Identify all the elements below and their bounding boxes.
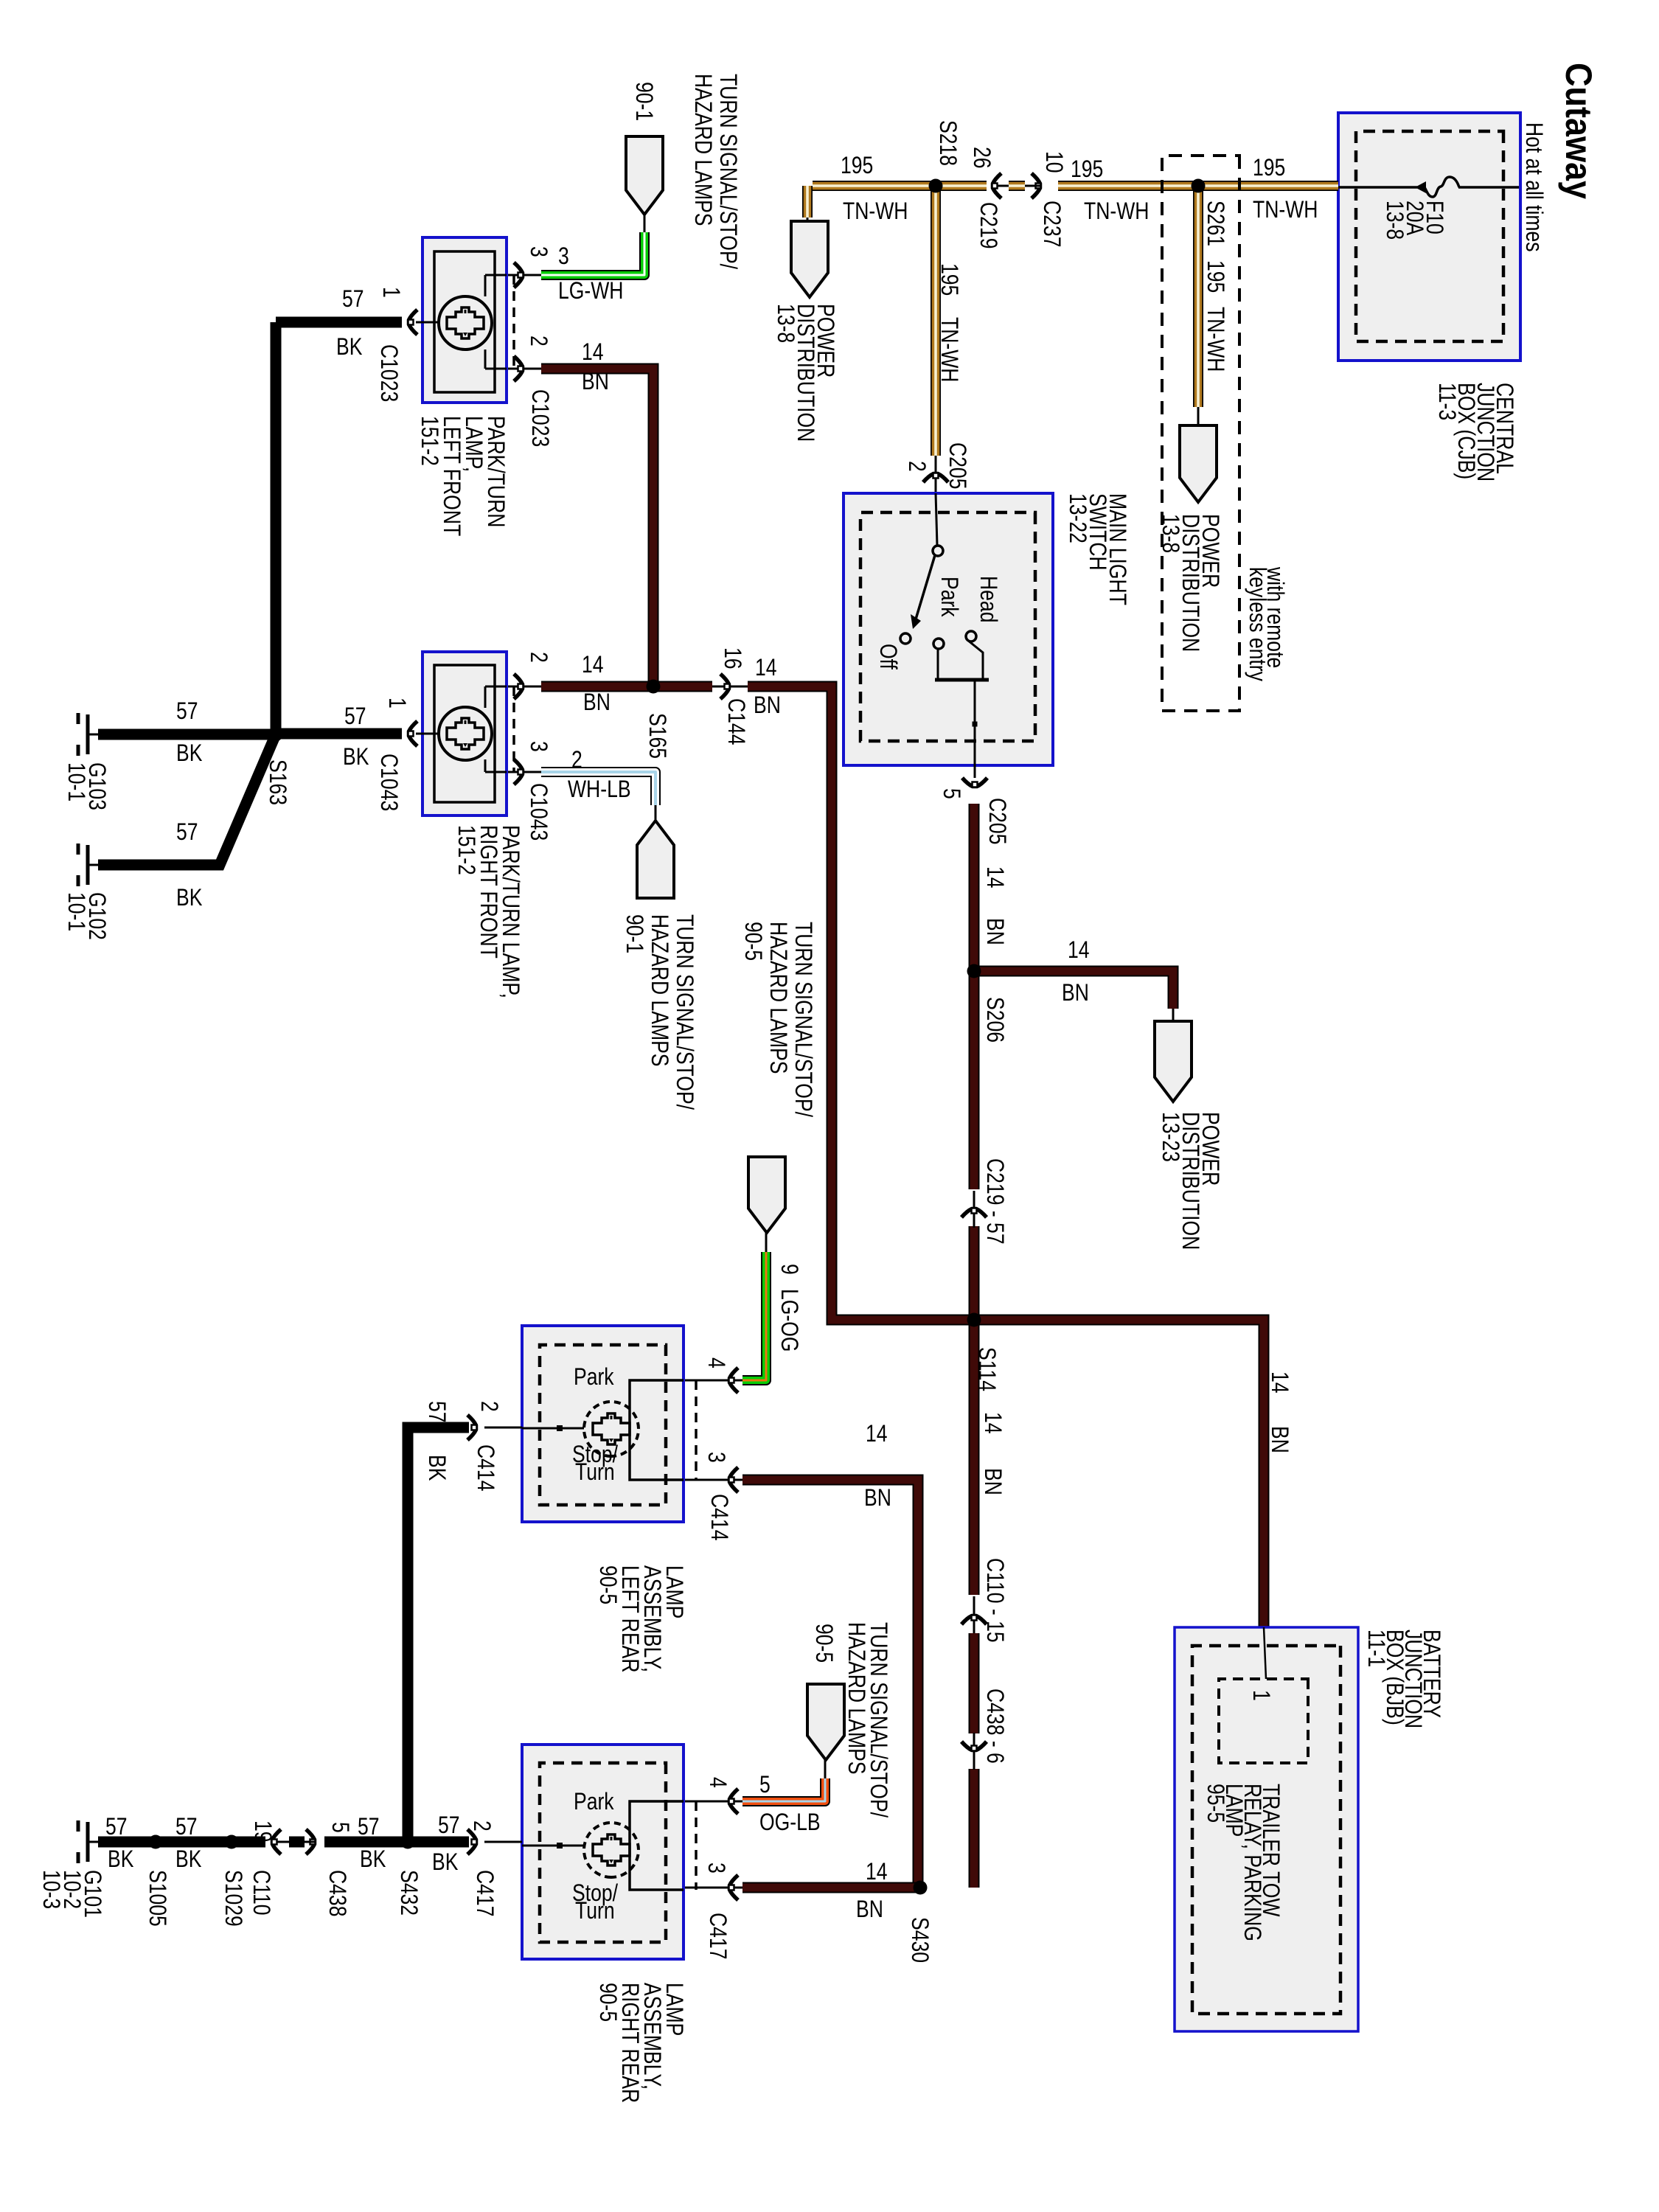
label C417 (pin 3) xyxy=(704,1913,731,1959)
left rear lamp assembly box xyxy=(522,1326,684,1522)
title Cutaway xyxy=(1557,63,1599,200)
svg-text:Turn: Turn xyxy=(575,1898,615,1924)
label C237 xyxy=(1038,201,1065,247)
label C205 xyxy=(944,442,970,489)
junction square on output wire xyxy=(973,722,978,727)
wire label 57 (G102) xyxy=(176,819,198,846)
svg-text:13-22: 13-22 xyxy=(1064,493,1091,543)
battery junction box BJB xyxy=(1175,1627,1358,2031)
right rear lamp inner dashed outline xyxy=(540,1763,666,1942)
wire label OG-LB xyxy=(759,1809,821,1836)
switch Park terminal xyxy=(933,639,944,649)
label Hot at all times xyxy=(1520,122,1547,252)
svg-text:C205: C205 xyxy=(944,442,970,489)
right front lamp pin 1 wire xyxy=(416,733,439,735)
svg-text:2: 2 xyxy=(571,747,582,773)
svg-text:14: 14 xyxy=(582,652,604,678)
svg-text:Head: Head xyxy=(975,576,1001,622)
wire label BK (S432 to C417) xyxy=(432,1849,459,1876)
svg-text:14: 14 xyxy=(979,1412,1006,1434)
label BATTERY JUNCTION BOX (BJB) 11-1 xyxy=(1418,1630,1444,1718)
wire 3 LG-WH to left front pin 3 xyxy=(644,215,646,234)
wire 57 BK left front to S163 xyxy=(276,317,402,328)
dashed connector line C1043 xyxy=(512,686,515,772)
svg-text:14: 14 xyxy=(1068,937,1090,964)
connector C205 arrow at switch pin 5 xyxy=(962,778,987,787)
turn signal reference arrow 90-1 (right front WH-LB) xyxy=(637,821,674,898)
svg-text:C205: C205 xyxy=(984,798,1010,844)
switch output wire to pin 5 xyxy=(974,680,976,778)
svg-text:BN: BN xyxy=(754,692,781,719)
ground G103 xyxy=(88,734,98,736)
main light switch inner dashed outline xyxy=(860,512,1035,741)
wire label BN (detour horizontal) xyxy=(754,692,781,719)
svg-text:BK: BK xyxy=(175,1846,202,1873)
svg-text:90-5: 90-5 xyxy=(740,922,766,961)
connector C438 arrow (ground chain) xyxy=(306,1829,316,1854)
label with remote keyless entry xyxy=(1262,566,1288,668)
svg-text:S206: S206 xyxy=(981,997,1008,1043)
S261 branch wire 195 TN-WH to power distribution xyxy=(1193,186,1203,407)
pin label 2 (left rear) xyxy=(476,1401,502,1412)
svg-text:90-1: 90-1 xyxy=(621,914,647,953)
svg-text:BN: BN xyxy=(1062,980,1089,1006)
wire label BK (G103) xyxy=(176,740,203,767)
svg-text:13-8: 13-8 xyxy=(772,304,799,343)
connector C110 arrow (ground chain) xyxy=(272,1829,282,1854)
wire label BN (right rear pin3) xyxy=(856,1896,883,1923)
dashed connector line C414 xyxy=(695,1380,698,1480)
svg-text:4: 4 xyxy=(704,1777,731,1788)
wire 5 OG-LB to right rear pin 4 xyxy=(824,1760,827,1781)
svg-text:2: 2 xyxy=(476,1401,502,1412)
left rear pin 2 wire xyxy=(484,1427,522,1429)
svg-text:57: 57 xyxy=(105,1814,128,1840)
wire label TN-WH (bus middle segment) xyxy=(1084,198,1149,225)
switch internal bus bar xyxy=(935,678,989,682)
label C219 xyxy=(975,202,1001,248)
svg-text:13-23: 13-23 xyxy=(1157,1112,1183,1162)
wire label 14 (bus after S114) xyxy=(979,1412,1006,1434)
wire label BK (G102) xyxy=(176,885,203,911)
label TURN SIGNAL/STOP/ HAZARD LAMPS 90-1 (right front) xyxy=(671,914,698,1110)
label C417 (pin 2) xyxy=(471,1870,498,1916)
label C110 xyxy=(248,1870,274,1916)
svg-text:S218: S218 xyxy=(934,120,961,166)
wire label 14 (right front pin2) xyxy=(582,652,604,678)
connector C414 arrow at left rear pin 4 xyxy=(729,1368,739,1393)
svg-text:151-2: 151-2 xyxy=(416,416,442,466)
svg-text:195: 195 xyxy=(936,263,962,296)
svg-text:5: 5 xyxy=(938,788,964,799)
right front bulb xyxy=(439,707,492,760)
svg-text:C1043: C1043 xyxy=(525,783,552,841)
power distribution reference arrow 13-23 xyxy=(1155,1021,1192,1102)
wire label 57 (G103) xyxy=(176,698,198,725)
svg-text:10: 10 xyxy=(1040,151,1067,173)
label C205 (output) xyxy=(984,798,1010,844)
wire 195 TN-WH from S218 to main light switch xyxy=(931,186,941,456)
wire label 195 (bus middle segment) xyxy=(1071,156,1103,183)
svg-text:195: 195 xyxy=(841,153,873,179)
wire Head terminal to bus bar xyxy=(967,640,983,680)
junction square inside right rear lamp xyxy=(557,1843,563,1848)
dashed connector line C417 xyxy=(695,1801,698,1890)
label Park (right rear) xyxy=(574,1789,614,1815)
turn signal reference arrow 90-1 (left front) xyxy=(626,136,663,215)
svg-text:S165: S165 xyxy=(644,713,670,759)
wire label 14 (S206 branch) xyxy=(1068,937,1090,964)
pin label 3 (right rear) xyxy=(703,1863,729,1874)
svg-text:HAZARD LAMPS: HAZARD LAMPS xyxy=(646,914,672,1067)
svg-text:10-1: 10-1 xyxy=(63,892,89,931)
pin label 3 (left rear) xyxy=(703,1452,729,1463)
label TURN SIGNAL/STOP/ HAZARD LAMPS (left front) xyxy=(714,74,741,270)
svg-text:1: 1 xyxy=(383,698,410,709)
S206 branch wire up and right xyxy=(974,971,1173,1009)
svg-text:BN: BN xyxy=(981,918,1008,945)
wire label BK (right front ground) xyxy=(343,744,369,771)
svg-text:C438: C438 xyxy=(324,1870,350,1916)
wire label LG-OG xyxy=(776,1289,802,1352)
label C414 (pin 2) xyxy=(472,1444,498,1491)
wire 57 BK right rear pin 2 to S432 xyxy=(408,1837,469,1848)
svg-text:90-5: 90-5 xyxy=(810,1624,837,1663)
wire into relay pin 1 xyxy=(1264,1627,1266,1679)
svg-text:14: 14 xyxy=(866,1421,888,1447)
label 10 xyxy=(1040,151,1067,173)
svg-text:14: 14 xyxy=(1266,1371,1293,1394)
left front park/turn lamp box xyxy=(422,237,507,403)
wire 9 LG-OG to left rear pin 4 xyxy=(765,1233,768,1254)
switch Head terminal xyxy=(966,631,976,641)
junction square inside left rear lamp xyxy=(557,1425,563,1431)
wire label 14 (left rear pin3) xyxy=(866,1421,888,1447)
svg-text:HAZARD LAMPS: HAZARD LAMPS xyxy=(689,74,716,226)
svg-text:LG-OG: LG-OG xyxy=(776,1289,802,1352)
label Stop/Turn (right rear) xyxy=(572,1880,619,1907)
svg-text:HAZARD LAMPS: HAZARD LAMPS xyxy=(843,1622,869,1775)
wire label BK (left rear ground) xyxy=(423,1455,450,1481)
svg-text:TURN SIGNAL/STOP/: TURN SIGNAL/STOP/ xyxy=(714,74,741,270)
wire 57 BK right front to S163 xyxy=(276,728,402,740)
svg-text:BN: BN xyxy=(1266,1426,1293,1453)
circuit label 3 (LG-WH) xyxy=(558,243,569,270)
wire label TN-WH (switch feed) xyxy=(936,317,962,382)
svg-text:57: 57 xyxy=(176,819,198,846)
label TURN SIGNAL/STOP/ HAZARD LAMPS 90-5 (right rear) xyxy=(865,1622,891,1818)
pin label 2 xyxy=(903,461,930,472)
connector C1023 arrow at left front pin 2 xyxy=(514,356,524,381)
wire 57 BK S1029 to S1005 xyxy=(156,1837,232,1848)
svg-text:3: 3 xyxy=(703,1863,729,1874)
label C1043 (pin 3) xyxy=(525,783,552,841)
svg-text:57: 57 xyxy=(438,1812,460,1839)
svg-text:TN-WH: TN-WH xyxy=(1202,307,1228,372)
svg-text:S261: S261 xyxy=(1202,201,1228,246)
svg-text:151-2: 151-2 xyxy=(453,825,479,875)
svg-text:BN: BN xyxy=(582,369,609,395)
wire label TN-WH (bus upper segment) xyxy=(1253,197,1318,223)
svg-text:BN: BN xyxy=(979,1468,1006,1495)
label S218 xyxy=(934,120,961,166)
svg-text:195: 195 xyxy=(1202,260,1228,293)
wire 195 TN-WH S261 to C237 xyxy=(1058,181,1198,191)
svg-text:BK: BK xyxy=(336,334,363,361)
switch Off terminal xyxy=(900,633,911,644)
connector C438-6 inline xyxy=(973,1733,975,1770)
svg-text:BK: BK xyxy=(360,1846,386,1873)
label C219 - 57 xyxy=(981,1158,1008,1245)
circuit label 5 (OG-LB) xyxy=(759,1772,771,1798)
central junction box CJB xyxy=(1338,113,1520,361)
pin label 4 (left rear) xyxy=(703,1357,729,1368)
label S165 xyxy=(644,713,670,759)
svg-text:BN: BN xyxy=(583,689,611,716)
svg-text:OG-LB: OG-LB xyxy=(759,1809,821,1836)
left rear lamp internal wiring xyxy=(630,1380,684,1480)
svg-text:1: 1 xyxy=(1248,1690,1274,1701)
label TURN SIGNAL/STOP/ HAZARD LAMPS 90-5 (left rear) xyxy=(790,922,816,1118)
svg-text:1: 1 xyxy=(378,287,404,298)
label MAIN LIGHT SWITCH 13-22 xyxy=(1104,493,1130,605)
pin label 16 xyxy=(719,647,745,669)
wire label 195 (bus upper segment) xyxy=(1253,155,1285,181)
label C1023 (pin 2) xyxy=(526,389,553,447)
svg-text:Off: Off xyxy=(874,644,901,670)
wire label 14 (bus after switch) xyxy=(981,866,1008,888)
svg-text:C414: C414 xyxy=(706,1494,732,1540)
right front lamp inner rect xyxy=(434,665,495,802)
wire label 14 (right rear pin3) xyxy=(866,1859,888,1885)
svg-text:57: 57 xyxy=(344,703,366,730)
CJB inner dashed outline xyxy=(1356,131,1503,341)
wire 14 BN S165 to right front lamp pin 2 xyxy=(541,681,653,692)
svg-text:3: 3 xyxy=(525,741,552,752)
label LAMP ASSEMBLY RIGHT REAR 90-5 xyxy=(661,1983,687,2036)
wire label BK (S1029-S1005) xyxy=(175,1846,202,1873)
label TRAILER TOW RELAY PARKING LAMP 95-5 xyxy=(1257,1784,1284,1917)
connector C417 arrow at right rear pin 3 xyxy=(729,1875,739,1900)
svg-text:Turn: Turn xyxy=(575,1459,615,1486)
label S206 xyxy=(981,997,1008,1043)
label Head xyxy=(975,576,1001,622)
pin label 3 (right front) xyxy=(525,741,552,752)
label PARK/TURN LAMP LEFT FRONT 151-2 xyxy=(482,416,509,527)
svg-text:3: 3 xyxy=(703,1452,729,1463)
wire label LG-WH xyxy=(558,278,623,305)
label G101 10-2 10-3 xyxy=(79,1870,105,1918)
svg-text:10-1: 10-1 xyxy=(63,762,89,801)
wire Park terminal to bus bar xyxy=(937,649,939,680)
svg-text:2: 2 xyxy=(525,335,552,347)
pin label 2 (left front) xyxy=(525,335,552,347)
connector C219 arrow xyxy=(992,173,1002,198)
pin label 2 (right rear) xyxy=(468,1820,495,1832)
svg-text:BK: BK xyxy=(176,740,203,767)
svg-text:Park: Park xyxy=(574,1789,614,1815)
svg-text:14: 14 xyxy=(582,339,604,366)
wire 195 TN-WH C219 to S218 xyxy=(936,181,987,191)
wire 57 BK left rear pin 2 to S432 xyxy=(408,1427,469,1842)
wire elbow to power distribution arrow xyxy=(802,186,813,218)
wire label 14 (left front pin2) xyxy=(582,339,604,366)
label S430 xyxy=(906,1917,933,1963)
wire label 57 (S432-C438) xyxy=(358,1814,380,1840)
svg-text:HAZARD LAMPS: HAZARD LAMPS xyxy=(765,922,791,1074)
label C438 xyxy=(324,1870,350,1916)
wire 14 BN S165 to left front lamp pin 2 xyxy=(541,369,653,686)
svg-text:C1023: C1023 xyxy=(375,344,402,402)
connector C1043 arrow at right front pin 3 xyxy=(514,759,524,785)
label Park (left rear) xyxy=(574,1364,614,1391)
wire label 195 (switch feed) xyxy=(936,263,962,296)
label Park xyxy=(936,577,962,617)
svg-text:S430: S430 xyxy=(906,1917,933,1963)
svg-text:C219: C219 xyxy=(975,202,1001,248)
connector C1023 arrow at left front pin 1 xyxy=(408,310,418,335)
wire label BN (left rear pin3) xyxy=(864,1485,891,1512)
svg-text:Hot at all times: Hot at all times xyxy=(1520,122,1547,252)
left front lamp pin 1 wire xyxy=(416,321,439,324)
wire 57 BK S1005 to G101 xyxy=(98,1837,156,1848)
wire label BN (BJB feed) xyxy=(1266,1426,1293,1453)
connector C1043 arrow at right front pin 2 xyxy=(514,674,524,699)
svg-text:95-5: 95-5 xyxy=(1202,1784,1228,1823)
svg-text:S1029: S1029 xyxy=(220,1870,246,1927)
pin label 4 (right rear) xyxy=(704,1777,731,1788)
svg-text:C237: C237 xyxy=(1038,201,1065,247)
svg-text:S432: S432 xyxy=(395,1870,422,1916)
svg-text:C438 - 6: C438 - 6 xyxy=(981,1688,1008,1764)
connector C110-15 inline xyxy=(973,1596,975,1633)
turn signal reference arrow 90-5 (left rear LG-OG) xyxy=(748,1157,785,1233)
svg-text:9: 9 xyxy=(776,1264,802,1275)
dashed connector line C1023 xyxy=(512,275,515,369)
svg-text:TURN SIGNAL/STOP/: TURN SIGNAL/STOP/ xyxy=(790,922,816,1118)
wire label BK (S432-C438) xyxy=(360,1846,386,1873)
svg-text:C1043: C1043 xyxy=(375,754,402,811)
svg-text:BK: BK xyxy=(108,1846,134,1873)
circuit label 2 (WH-LB) xyxy=(571,747,582,773)
S114 branch wire to battery junction box xyxy=(974,1320,1264,1627)
svg-text:keyless entry: keyless entry xyxy=(1244,567,1270,681)
pin label 1 (left front) xyxy=(378,287,404,298)
svg-text:BN: BN xyxy=(856,1896,883,1923)
svg-text:S114: S114 xyxy=(973,1347,1000,1391)
wire label TN-WH (S261 branch) xyxy=(1202,307,1228,372)
svg-text:195: 195 xyxy=(1071,156,1103,183)
svg-text:14: 14 xyxy=(866,1859,888,1885)
svg-text:3: 3 xyxy=(525,246,552,257)
label C144 xyxy=(723,698,749,745)
svg-text:11-1: 11-1 xyxy=(1363,1630,1389,1667)
svg-text:2: 2 xyxy=(468,1820,495,1832)
label C414 (pin 3) xyxy=(706,1494,732,1540)
svg-text:Park: Park xyxy=(936,577,962,617)
ground G102 xyxy=(88,864,98,866)
connector C219-57 inline xyxy=(973,1191,975,1228)
label S432 xyxy=(395,1870,422,1916)
switch blade to Off xyxy=(915,555,935,622)
left front lamp internal pin lines xyxy=(485,274,507,276)
wire label BN (bus after switch) xyxy=(981,918,1008,945)
label S163 xyxy=(264,759,291,805)
svg-text:WH-LB: WH-LB xyxy=(568,776,631,803)
wire 195 TN-WH from CJB down to S261 xyxy=(1198,181,1338,191)
right rear bulb xyxy=(584,1823,639,1877)
svg-text:90-5: 90-5 xyxy=(594,1983,621,2022)
label POWER DISTRIBUTION 13-8 (S261 branch) xyxy=(1197,514,1223,588)
svg-text:LG-WH: LG-WH xyxy=(558,278,623,305)
svg-text:TN-WH: TN-WH xyxy=(936,317,962,382)
svg-text:57: 57 xyxy=(176,698,198,725)
wire label TN-WH (bus lower segment) xyxy=(843,198,908,225)
wire 57 BK across to S163 xyxy=(271,322,282,734)
label S1005 xyxy=(144,1870,170,1927)
svg-text:TN-WH: TN-WH xyxy=(1253,197,1318,223)
ground G101 xyxy=(88,1841,98,1843)
dashed box with remote keyless entry xyxy=(1162,156,1239,711)
svg-text:90-1: 90-1 xyxy=(630,82,657,121)
wire label 195 (bus lower segment) xyxy=(841,153,873,179)
wire label BN (left front pin2) xyxy=(582,369,609,395)
connector C144 arrow xyxy=(720,674,730,699)
svg-text:3: 3 xyxy=(558,243,569,270)
svg-text:C1023: C1023 xyxy=(526,389,553,447)
right front lamp internal pin lines xyxy=(485,686,507,688)
pin label 5 (C438) xyxy=(327,1822,353,1833)
svg-text:Park: Park xyxy=(574,1364,614,1391)
wire label WH-LB xyxy=(568,776,631,803)
wire 57 BK S163 to G103 xyxy=(98,729,276,740)
svg-text:C219 - 57: C219 - 57 xyxy=(981,1158,1008,1245)
svg-text:57: 57 xyxy=(175,1814,198,1840)
trailer tow relay contact dashed box xyxy=(1219,1679,1308,1763)
connector C417 arrow at right rear pin 2 xyxy=(467,1829,477,1854)
wire label 14 (BJB feed) xyxy=(1266,1371,1293,1394)
pin label 2 (right front) xyxy=(525,652,552,663)
label S261 xyxy=(1202,201,1228,246)
wire 14 BN S430 to right rear pin 3 xyxy=(742,1882,920,1893)
wire label BK (left front ground) xyxy=(336,334,363,361)
BJB inner dashed outline xyxy=(1192,1646,1340,2014)
svg-text:S163: S163 xyxy=(264,759,291,805)
label S1029 xyxy=(220,1870,246,1927)
svg-text:90-5: 90-5 xyxy=(594,1565,621,1604)
S114 branch wire down and left to S165 (detour) xyxy=(748,686,974,1320)
left rear lamp inner dashed outline xyxy=(540,1345,666,1505)
svg-text:BK: BK xyxy=(423,1455,450,1481)
svg-text:57: 57 xyxy=(342,286,364,313)
pin label 1 (right front) xyxy=(383,698,410,709)
label G103 10-1 xyxy=(83,762,110,810)
connector C417 arrow at right rear pin 4 xyxy=(729,1789,739,1814)
wire label 57 (S432 to C417) xyxy=(438,1812,460,1839)
wire label 14 (detour horizontal) xyxy=(755,655,777,681)
wire label 57 (right front ground) xyxy=(344,703,366,730)
power distribution reference arrow 13-8 (S261 branch) xyxy=(1180,425,1217,502)
right rear lamp assembly box xyxy=(522,1745,684,1959)
svg-text:57: 57 xyxy=(358,1814,380,1840)
svg-text:14: 14 xyxy=(981,866,1008,888)
pin label 3 (left front) xyxy=(525,246,552,257)
power distribution reference arrow 13-8 xyxy=(791,221,828,297)
connector C1023 arrow at left front pin 3 xyxy=(514,262,524,288)
svg-text:26: 26 xyxy=(968,147,995,169)
svg-text:C144: C144 xyxy=(723,698,749,745)
fuse F10 20A 13-8 xyxy=(1458,186,1519,189)
